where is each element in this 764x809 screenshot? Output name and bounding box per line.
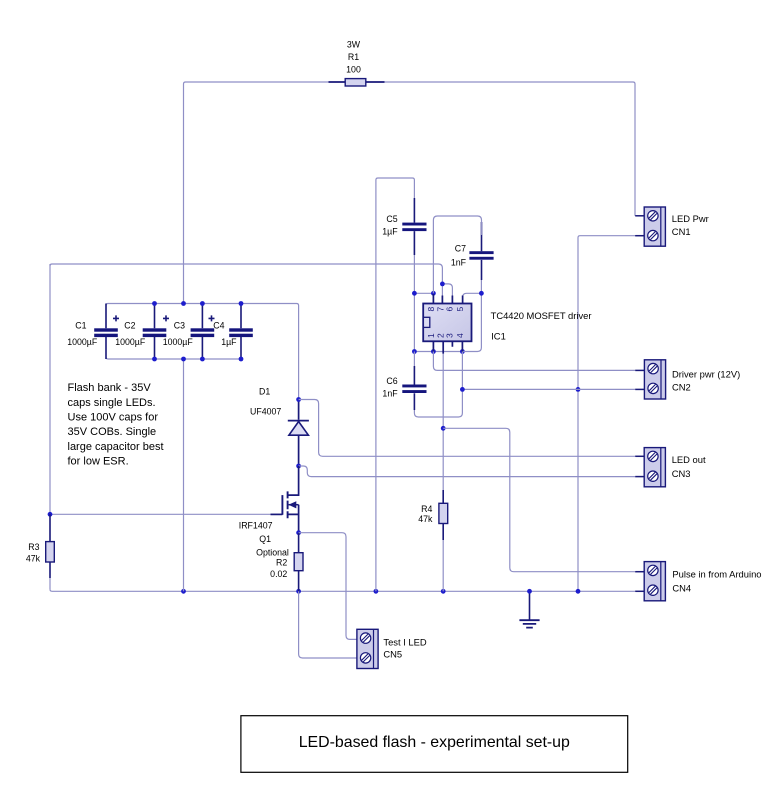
wire 12V to CN2 pin1 (433, 352, 635, 371)
svg-text:LED-based flash - experimental: LED-based flash - experimental set-up (299, 734, 570, 751)
svg-text:47k: 47k (26, 554, 41, 564)
resistor R4 (442, 490, 444, 540)
capacitor C6 (413, 352, 415, 367)
wire C7 bottom to pin5 net (480, 280, 482, 293)
node pin2 R4 junction (441, 426, 446, 431)
IC1 pin stubs (433, 294, 462, 304)
svg-text:LED Pwr: LED Pwr (672, 213, 709, 224)
wire gate horizontal (50, 513, 271, 515)
svg-text:4: 4 (455, 333, 465, 338)
svg-text:UF4007: UF4007 (250, 407, 281, 417)
wire C7 top loop to pin8 (433, 216, 481, 293)
svg-text:Driver pwr (12V): Driver pwr (12V) (672, 368, 740, 379)
svg-text:1000µF: 1000µF (163, 337, 194, 347)
svg-text:CN2: CN2 (672, 382, 691, 393)
resistor R2 (298, 533, 300, 592)
wire CN1 pin1 stub (635, 215, 644, 217)
svg-text:6: 6 (445, 306, 455, 311)
node Q1 source junction (296, 530, 301, 535)
svg-text:3W: 3W (347, 40, 361, 50)
capacitor C5 (413, 198, 415, 255)
svg-text:1000µF: 1000µF (115, 337, 146, 347)
wire CN1 pin2 to ground rail (578, 236, 644, 592)
node D1 anode junction (296, 397, 301, 402)
diode D1 (298, 400, 300, 467)
ground symbol (529, 591, 531, 620)
wire pin2 net to CN4 pin1 (443, 428, 635, 571)
svg-text:LED out: LED out (672, 454, 706, 465)
svg-text:C2: C2 (124, 320, 135, 330)
connector CN3 (644, 448, 665, 487)
wire Q1 source to CN5 pin1 (299, 533, 357, 640)
svg-text:Use 100V caps for: Use 100V caps for (68, 412, 159, 424)
svg-text:caps single LEDs.: caps single LEDs. (68, 397, 156, 409)
op-amp IC1 TC4420 body (423, 304, 471, 342)
wire left vertical gate net (49, 264, 51, 514)
connector CN4 (644, 562, 665, 601)
svg-text:R1: R1 (348, 52, 359, 62)
wire pin5 to C7 bottom (463, 293, 482, 303)
svg-text:47k: 47k (418, 514, 433, 524)
svg-text:D1: D1 (259, 386, 270, 396)
wire C7 net down to pin4 (462, 293, 481, 351)
svg-text:Test I LED: Test I LED (383, 636, 426, 647)
svg-text:IC1: IC1 (491, 330, 506, 341)
capacitor C1 (105, 304, 107, 360)
svg-text:C3: C3 (174, 320, 185, 330)
svg-text:C4: C4 (213, 320, 224, 330)
svg-text:1nF: 1nF (451, 258, 467, 268)
svg-text:35V COBs. Single: 35V COBs. Single (68, 426, 157, 438)
svg-text:R2: R2 (276, 558, 287, 568)
svg-text:CN4: CN4 (672, 582, 691, 593)
node cap bank bottom rail junctions (152, 357, 157, 362)
node pin7 junction (440, 282, 445, 287)
connector CN5 (357, 629, 378, 668)
svg-text:C7: C7 (455, 243, 466, 253)
wire VDD vertical (413, 293, 415, 351)
svg-text:CN1: CN1 (672, 226, 691, 237)
svg-text:1nF: 1nF (382, 389, 398, 399)
node gate R3 junction (48, 512, 53, 517)
svg-text:for low ESR.: for low ESR. (68, 456, 129, 468)
wire driver output to gate net (50, 264, 442, 284)
svg-text:1µF: 1µF (221, 337, 237, 347)
svg-text:5: 5 (455, 306, 465, 311)
svg-text:1µF: 1µF (382, 227, 398, 237)
svg-text:IRF1407: IRF1407 (239, 521, 273, 531)
svg-text:0.02: 0.02 (270, 569, 287, 579)
capacitor C4 (240, 304, 242, 360)
wire pin7 junction to pin6 (442, 284, 452, 304)
resistor R1 (329, 81, 385, 83)
svg-text:3: 3 (445, 333, 455, 338)
wire D1 bottom to CN3 pin2 (299, 466, 636, 477)
svg-text:Pulse in from Arduino: Pulse in from Arduino (672, 569, 761, 580)
connector CN2 (644, 360, 665, 399)
connector CN1 (644, 207, 665, 246)
wire cap bank top rail to D1 (106, 304, 299, 400)
svg-text:TC4420 MOSFET driver: TC4420 MOSFET driver (491, 310, 592, 321)
svg-text:R3: R3 (28, 542, 39, 552)
wire C5 bottom to pin8 rail (413, 255, 415, 293)
node D1 cathode junction (296, 464, 301, 469)
svg-text:Flash bank - 35V: Flash bank - 35V (68, 382, 152, 394)
svg-text:1000µF: 1000µF (67, 337, 98, 347)
wire top rail from cap bank to CN1 (184, 82, 636, 304)
resistor R3 (49, 514, 51, 578)
node VDD junctions (412, 291, 417, 296)
svg-text:CN5: CN5 (383, 649, 402, 660)
wire C5 ground loop (376, 178, 415, 591)
wire GND to CN2 pin2 (462, 352, 635, 390)
title box (241, 716, 628, 773)
node ground rail junctions (181, 589, 186, 594)
svg-text:CN3: CN3 (672, 468, 691, 479)
node cap bank top rail junctions (152, 301, 157, 306)
wire pin1 horizontal (414, 351, 462, 353)
svg-text:100: 100 (346, 64, 361, 74)
wire pin2 down to R4 (442, 354, 444, 490)
svg-text:R4: R4 (421, 504, 432, 514)
node GND junction at C6 (460, 387, 465, 392)
svg-text:C1: C1 (75, 320, 86, 330)
wire D1 top to CN3 pin1 (299, 400, 636, 457)
transistor Q1 (288, 466, 299, 495)
node C7 pin5 junction (479, 291, 484, 296)
svg-text:C5: C5 (386, 214, 397, 224)
capacitor C3 (201, 304, 203, 360)
node CN1 ground junction (576, 387, 581, 392)
wire CN5 pin2 to ground rail (299, 591, 357, 658)
svg-text:large capacitor best: large capacitor best (68, 441, 164, 453)
svg-text:Q1: Q1 (259, 534, 271, 544)
capacitor C2 (154, 304, 156, 360)
capacitor C7 (481, 222, 483, 280)
svg-text:Optional: Optional (256, 547, 289, 557)
svg-text:C6: C6 (386, 376, 397, 386)
wire C6 bottom loop to GND net (414, 389, 462, 417)
wire pin8 horizontal (414, 292, 433, 294)
wire ground rail (50, 589, 635, 591)
wire main vertical cap bank to ground rail (183, 359, 185, 591)
wire cap bank bottom rail (106, 357, 241, 359)
